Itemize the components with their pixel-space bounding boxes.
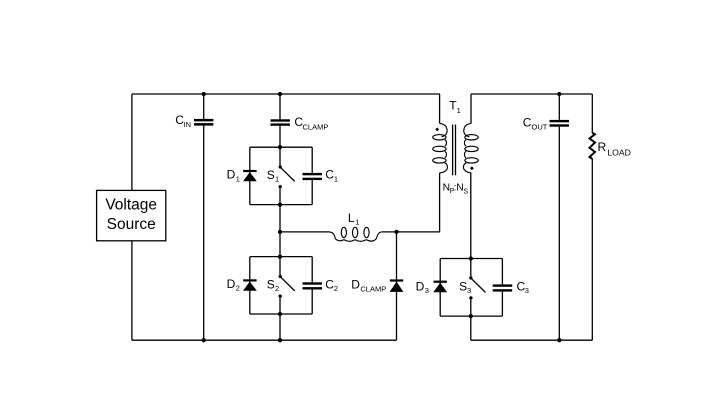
switch S3 blade (472, 279, 485, 292)
svg-text:D: D (351, 278, 360, 292)
svg-text:1: 1 (236, 174, 240, 183)
capacitor CIN plates (194, 119, 213, 122)
wire primary top drop (439, 94, 441, 123)
cell2 top wire (250, 256, 312, 258)
transformer secondary polarity dot (470, 166, 474, 170)
capacitor C3 plates (493, 284, 513, 286)
cell1 top wire (250, 146, 312, 148)
junction node cell2 top (278, 254, 282, 258)
svg-text:R: R (598, 140, 607, 154)
svg-text:OUT: OUT (532, 122, 548, 131)
capacitor CCLAMP plates (271, 119, 290, 121)
wire L1 left (280, 231, 329, 233)
junction node cell3 top (469, 256, 473, 260)
svg-text:IN: IN (184, 120, 192, 129)
switch S3 upper wire (470, 259, 472, 277)
voltage source box (97, 190, 166, 240)
cell3 right side upper wire (501, 259, 503, 285)
cell1 bottom wire (250, 204, 312, 206)
svg-text:CLAMP: CLAMP (303, 122, 329, 131)
junction node top rail at CCLAMP (278, 92, 282, 96)
cell1 right side lower wire (311, 180, 313, 205)
cell1 right side upper wire (311, 147, 313, 173)
switch S2 contact dots (279, 275, 282, 278)
junction node bottom rail at COUT (557, 338, 561, 342)
svg-text:Voltage: Voltage (105, 197, 157, 214)
svg-text:L: L (348, 211, 355, 225)
transformer T1 secondary winding (463, 123, 478, 172)
switch S2 lower wire (279, 298, 281, 314)
svg-text:D: D (416, 279, 425, 293)
cell2 right side lower wire (311, 290, 313, 315)
switch S1 upper wire (279, 147, 281, 165)
wire L1 right (382, 231, 440, 233)
wire Cclamp bottom (279, 126, 281, 147)
switch S2 blade (281, 278, 294, 291)
diode D2 (243, 279, 256, 281)
junction node top rail at COUT (557, 92, 561, 96)
svg-text:3: 3 (467, 286, 471, 295)
svg-text:2: 2 (275, 284, 279, 293)
capacitor COUT plates (550, 120, 570, 122)
switch S1 contact dots (279, 165, 282, 168)
wire Rload top (591, 94, 593, 133)
svg-text:1: 1 (334, 175, 338, 184)
svg-text:3: 3 (525, 286, 529, 295)
junction node cell1 bottom (278, 202, 282, 206)
junction node bottom rail at cell2 (278, 338, 282, 342)
junction node bottom rail at CIN (202, 338, 206, 342)
svg-text:D: D (227, 168, 236, 182)
svg-text:D: D (227, 277, 236, 291)
capacitor C1 plates (303, 173, 323, 175)
wire primary bottom rise (439, 173, 441, 232)
junction node cell3 bottom (469, 314, 473, 318)
cell2 bottom wire (250, 313, 312, 315)
svg-text:S: S (463, 188, 468, 196)
svg-text:C: C (325, 277, 334, 291)
resistor RLOAD zigzag (590, 133, 596, 159)
diode D3 (434, 281, 447, 283)
wire left vertical lower (131, 241, 133, 340)
svg-text:CLAMP: CLAMP (360, 284, 386, 293)
switch S3 contact dots (469, 276, 472, 279)
junction node cell1 top (278, 145, 282, 149)
transformer T1 primary winding (433, 123, 448, 172)
junction node L1 right Dclamp (394, 230, 398, 234)
wire top rail primary side (132, 93, 440, 95)
wire Cin bottom (203, 125, 205, 340)
switch S2 upper wire (279, 257, 281, 275)
wire Cclamp top (279, 94, 281, 119)
svg-text:S: S (267, 168, 275, 182)
diode DCLAMP (390, 279, 403, 281)
transformer T1 core lines (452, 125, 454, 176)
cell1 left side wire (249, 147, 251, 204)
cell2 right side upper wire (311, 257, 313, 283)
transformer primary polarity dot (435, 127, 439, 131)
switch S1 blade (281, 168, 294, 181)
svg-text:3: 3 (425, 286, 429, 295)
svg-text:1: 1 (275, 175, 279, 184)
wire bottom rail secondary side (471, 339, 593, 341)
diode D1 (243, 170, 256, 172)
cell3 top wire (440, 258, 502, 260)
wire Cout top (558, 94, 560, 120)
wire Dclamp vertical (396, 232, 398, 340)
wire cell3 to bottom rail (470, 316, 472, 340)
svg-text:C: C (325, 168, 334, 182)
junction node L1 left (278, 230, 282, 234)
wire cell2 to bottom rail (279, 314, 281, 340)
wire top rail secondary side (471, 93, 592, 95)
wire Cin top (203, 94, 205, 119)
capacitor C2 plates (303, 282, 323, 284)
svg-text:1: 1 (355, 218, 359, 227)
svg-text:S: S (459, 280, 467, 294)
svg-text:2: 2 (236, 284, 240, 293)
junction node top rail at CIN (202, 92, 206, 96)
wire cell1 to cell2 (279, 205, 281, 257)
cell2 left side wire (249, 257, 251, 314)
junction node cell2 bottom (278, 312, 282, 316)
wire left vertical upper (131, 94, 133, 190)
cell3 right side lower wire (501, 292, 503, 317)
wire bottom rail primary side (132, 339, 397, 341)
switch S1 lower wire (279, 188, 281, 204)
wire Cout bottom (558, 127, 560, 341)
cell3 bottom wire (440, 315, 502, 317)
svg-text:LOAD: LOAD (607, 147, 630, 157)
wire Rload bottom (591, 159, 593, 341)
wire secondary bottom drop (470, 173, 472, 259)
inductor L1 coil (329, 227, 381, 241)
cell3 left side wire (439, 259, 441, 317)
svg-text:1: 1 (457, 106, 461, 115)
wire secondary top rise (470, 94, 472, 123)
svg-text:S: S (267, 277, 275, 291)
svg-text:2: 2 (334, 284, 338, 293)
svg-text:Source: Source (107, 216, 156, 233)
switch S3 lower wire (470, 299, 472, 316)
svg-text:C: C (523, 116, 532, 130)
